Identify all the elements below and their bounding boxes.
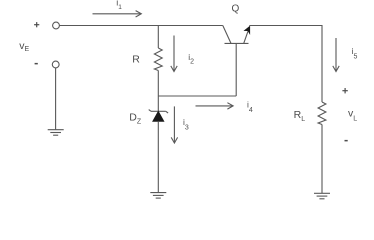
svg-text:i4: i4 bbox=[247, 100, 253, 114]
resistor R bbox=[154, 48, 162, 71]
current arrow i4 bbox=[196, 103, 234, 109]
svg-text:i1: i1 bbox=[116, 0, 122, 11]
current arrow i1 bbox=[93, 11, 142, 17]
node wire to transistor base bbox=[158, 95, 236, 97]
wire: top node down to resistor R bbox=[157, 26, 159, 49]
wire: resistor R to node bbox=[157, 71, 159, 97]
wire: input + terminal to transistor collector bbox=[60, 25, 223, 27]
terminal circle (input +) bbox=[53, 22, 60, 29]
svg-text:DZ: DZ bbox=[129, 111, 142, 125]
current arrow i5 bbox=[333, 38, 339, 72]
label - (input) bbox=[35, 63, 38, 65]
wire: node down to zener bbox=[157, 96, 159, 112]
current arrow i2 bbox=[171, 36, 177, 72]
ground (zener branch) bbox=[150, 193, 166, 199]
svg-text:vE: vE bbox=[19, 40, 29, 53]
svg-text:i2: i2 bbox=[188, 52, 194, 66]
transistor Q bbox=[223, 26, 250, 44]
label - (output) bbox=[345, 140, 348, 142]
label + (output) bbox=[342, 88, 347, 93]
svg-text:i5: i5 bbox=[352, 46, 358, 61]
ground (input) bbox=[48, 130, 64, 136]
wire: RL to ground bbox=[321, 125, 323, 194]
svg-text:vL: vL bbox=[348, 107, 357, 122]
wire: emitter to load branch corner bbox=[249, 26, 322, 103]
ground (load) bbox=[314, 193, 330, 199]
current arrow i3 bbox=[171, 106, 177, 143]
svg-text:R: R bbox=[132, 54, 140, 66]
terminal circle (input -) bbox=[52, 61, 59, 68]
zener diode DZ bbox=[149, 110, 168, 122]
wire: zener to ground bbox=[157, 121, 159, 192]
svg-text:Q: Q bbox=[232, 3, 240, 14]
wire: - terminal down to ground bbox=[55, 68, 57, 129]
label + (input) bbox=[34, 22, 39, 27]
svg-text:RL: RL bbox=[294, 109, 306, 123]
svg-text:i3: i3 bbox=[183, 117, 189, 132]
resistor RL bbox=[318, 102, 326, 125]
wire: transistor base lead down to node bbox=[235, 43, 237, 96]
